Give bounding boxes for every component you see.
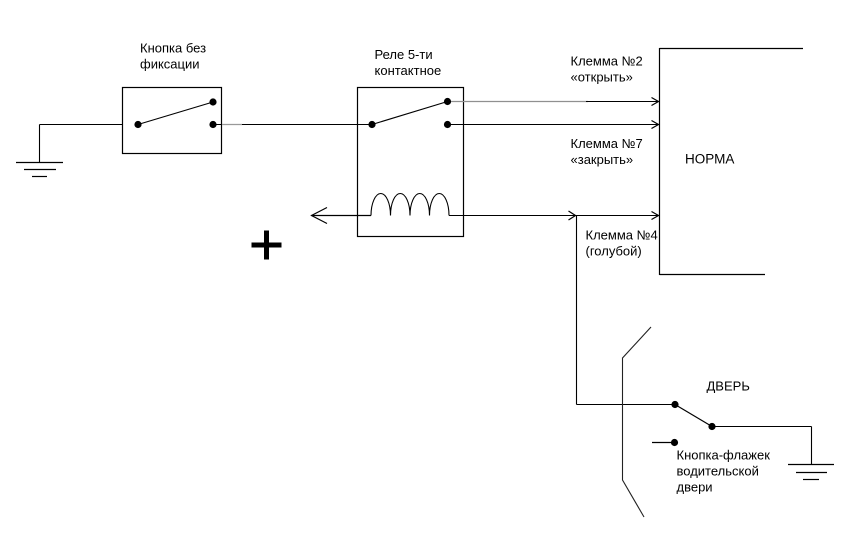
svg-text:Клемма №4: Клемма №4 (586, 228, 658, 243)
plus sign (+12V supply mark) (252, 231, 282, 260)
svg-text:«открыть»: «открыть» (571, 70, 633, 85)
K1 output contact dot (444, 121, 451, 128)
S1 blade (138, 102, 213, 125)
svg-text:фиксации: фиксации (140, 57, 200, 72)
svg-text:двери: двери (677, 480, 713, 495)
svg-text:контактное: контактное (375, 63, 442, 78)
K1 blade (372, 102, 448, 125)
K1 NO contact dot (444, 98, 451, 105)
wire K1 common to terminal 7 (451, 121, 659, 129)
S1 common contact dot (134, 121, 141, 128)
ground GND1 (left) (16, 163, 63, 177)
label: Клемма №4 (голубой) (586, 228, 658, 259)
svg-text:Клемма №2: Клемма №2 (571, 54, 643, 69)
НОРМА enclosure (partial box) (660, 48, 804, 275)
arrow to vehicle wiring (left) (312, 208, 372, 224)
pushbutton S1 body (123, 88, 222, 154)
wire K1 NO to terminal 2 (451, 98, 659, 106)
door edge line (623, 327, 652, 517)
svg-text:водительской: водительской (677, 464, 759, 479)
wire coil to terminal 4 (449, 211, 659, 220)
svg-text:Реле 5-ти: Реле 5-ти (375, 47, 433, 62)
svg-text:ДВЕРЬ: ДВЕРЬ (707, 379, 750, 394)
svg-text:НОРМА: НОРМА (685, 152, 734, 167)
label: Кнопка-флажек водительской двери (677, 448, 771, 495)
label: Клемма №2 «открыть» (571, 54, 643, 85)
wire branch down to door switch (577, 216, 676, 405)
svg-text:Кнопка-флажек: Кнопка-флажек (677, 448, 771, 463)
door switch common dot (671, 401, 678, 408)
svg-text:(голубой): (голубой) (586, 244, 642, 259)
label: Клемма №7 «закрыть» (571, 136, 643, 167)
svg-text:«закрыть»: «закрыть» (571, 152, 634, 167)
wire S1 to K1 (213, 124, 372, 126)
door switch blade (675, 405, 712, 427)
relay K1 body (358, 88, 464, 237)
S1 NO contact dot (209, 98, 216, 105)
door switch NC stub (652, 439, 678, 446)
door switch moving contact dot (708, 423, 715, 430)
wire GND1 vertical (39, 125, 41, 163)
label: Кнопка без фиксации (140, 41, 206, 72)
ground GND2 (788, 465, 834, 480)
wire GND1 to S1 (40, 124, 123, 126)
S1 output contact dot (209, 121, 216, 128)
relay K1 coil (371, 194, 449, 216)
K1 common contact dot (368, 121, 375, 128)
wire door switch to GND2 (712, 427, 812, 465)
svg-text:Кнопка без: Кнопка без (140, 41, 206, 56)
svg-text:Клемма №7: Клемма №7 (571, 136, 643, 151)
label: Реле 5-ти контактное (375, 47, 442, 78)
